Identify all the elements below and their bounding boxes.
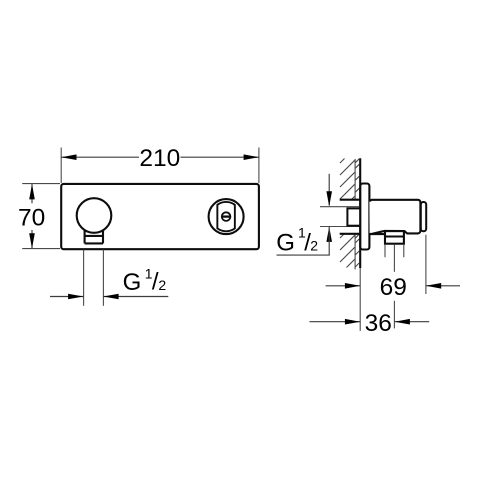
svg-text:2: 2 [158,277,166,293]
dimension 36 right line [395,321,430,323]
extension line right of 210 dim [258,148,260,184]
screw slot [222,215,231,217]
dimension line 210 left segment [61,156,139,158]
screw head circle [222,212,231,221]
svg-text:G: G [276,229,295,256]
extension line left of 210 dim [60,148,62,184]
fixture body rectangle [61,184,259,249]
svg-text:G: G [123,269,142,296]
union body outline [369,200,420,234]
dimension 36 left line [310,321,361,323]
arrowhead 70 down [29,233,35,248]
G1/2 thread line top (side view) [320,206,360,208]
wall opening bottom edge [340,233,361,235]
valve knob outer circle [209,199,244,234]
arrowhead G1/2 pointing left [103,294,118,300]
extension line bottom of 70 dim [22,248,60,250]
extension line top of 70 dim [22,183,60,185]
shower holder receptacle [385,231,404,244]
wall hatching lower finish strip [355,234,359,267]
pipe thread extension line right [102,250,104,306]
arrowhead G1/2 pointing right [68,294,83,300]
wall flange [360,184,369,250]
holder collar below circle [85,231,103,244]
G1/2 dimension line left segment [50,296,83,298]
up arrow to thread bottom with leader [326,227,332,242]
valve knob barrel (circle with side flats) [217,202,235,231]
holder inner line [385,235,404,237]
extension line from wall surface [359,268,361,331]
wall inner line upper [354,159,356,200]
holder lower edge lines [384,245,386,257]
wall inner line lower [354,234,356,270]
svg-text:36: 36 [365,310,392,337]
G1/2 thread line bottom (side view) [320,226,360,228]
wall hatching lower main strip [340,234,355,268]
svg-text:210: 210 [139,145,180,172]
arrowhead 210 left [61,154,76,160]
arrowhead 210 right [244,154,259,160]
wall opening top edge [340,199,361,201]
svg-text:69: 69 [380,274,407,301]
dimension 69 left line [326,285,361,287]
inlet thread stub [347,208,360,225]
wall hatching upper main strip [340,159,355,200]
dimension line 70 upper segment [31,184,33,203]
arrowhead 70 up [29,184,35,199]
end cap [421,202,426,231]
extension line from end cap [425,235,427,294]
down arrow to thread top [328,174,330,206]
extension line holder centre upper [393,245,395,272]
svg-text:70: 70 [18,205,45,232]
hand-shower holder knob circle [77,198,112,233]
dimension line 70 lower segment [31,230,33,249]
dimension line 210 right segment [181,156,259,158]
leader line under G 1/2 label [277,254,330,256]
extension line holder centre lower [393,301,395,329]
svg-text:2: 2 [310,238,318,254]
wall surface line [359,158,361,268]
G1/2 dimension line right segment [103,296,168,298]
dimension 69 right line [426,285,460,287]
wall hatching upper finish strip [355,159,359,192]
pipe thread extension line left [83,250,85,306]
